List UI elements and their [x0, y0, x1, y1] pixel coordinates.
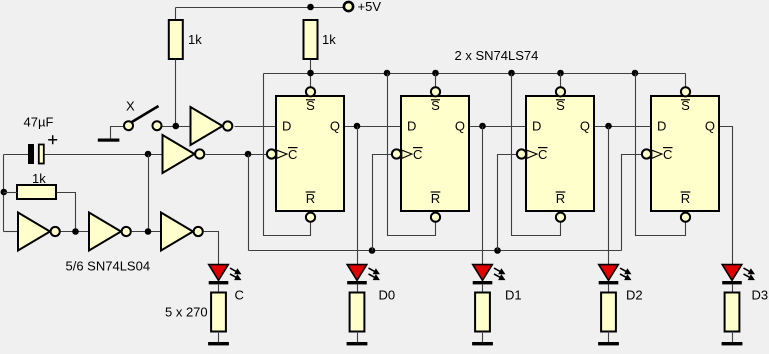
svg-text:C: C — [413, 147, 422, 162]
svg-text:D0: D0 — [379, 288, 396, 303]
node: LED D0 tap on Q of U2a — [354, 123, 361, 130]
ground: bar under LED C branch — [208, 342, 229, 345]
wire: LED D2 column from Q of U3a — [608, 127, 610, 265]
svg-text:1k: 1k — [188, 32, 202, 47]
node: junction R3 / U1a out / U1b in — [72, 228, 79, 235]
node: rail junction R2/S1 — [307, 70, 314, 77]
ground: bar under LED D1 branch — [472, 342, 493, 345]
wire: inverter U1e output to D of U2a — [235, 126, 277, 128]
wire: LED C cathode to resistor — [218, 285, 220, 293]
wire: S-bar drop to U3a — [560, 74, 562, 87]
node: rail junction R-tap U2b — [384, 70, 391, 77]
wire: clock riser to C of U3b (rail end) — [622, 155, 642, 251]
inverter U1c (SN74LS04, clock buffer) — [163, 135, 195, 173]
node: junction left rail / R3 — [1, 189, 8, 196]
ground: bar under LED D2 branch — [598, 342, 619, 345]
wire: R3 left lead — [4, 192, 18, 194]
resistor R2 1k (pull-up for S/R rail) — [304, 20, 318, 59]
wire: R3 right lead down to U1a output node — [57, 193, 76, 232]
node: junction switch/R1/U1e input — [173, 123, 180, 130]
wire: switch to R1/inverter node — [163, 126, 191, 128]
resistor 270 ohm under LED D3 — [725, 293, 740, 332]
svg-text:D: D — [657, 119, 666, 134]
svg-text:D: D — [532, 119, 541, 134]
svg-text:Q: Q — [580, 119, 590, 134]
svg-text:C: C — [538, 147, 547, 162]
wire: clock riser to C of U3a — [498, 155, 517, 251]
D flip-flop U3a (SN74LS74 half) — [517, 87, 594, 222]
resistor 270 ohm under LED C — [211, 293, 226, 332]
ground: bar under LED D0 branch — [347, 342, 368, 345]
resistor 270 ohm under LED D2 — [601, 293, 616, 332]
node: rail junction R-tap U3a — [508, 70, 515, 77]
LED D0 — [347, 265, 379, 285]
wire: resistor to ground (D0) — [357, 332, 359, 343]
switch X right terminal — [153, 121, 162, 130]
inverter U1b (SN74LS04) — [89, 213, 121, 251]
wire: clock drop to bottom clock rail — [248, 155, 250, 251]
label: capacitor plus sign — [48, 135, 57, 144]
svg-text:R: R — [556, 191, 565, 206]
D flip-flop U2a (SN74LS74 half) — [267, 87, 344, 222]
LED C — [209, 265, 241, 285]
wire: LED D1 cathode to resistor — [482, 285, 484, 293]
capacitor C1 47uF negative plate — [28, 144, 34, 164]
LED D3 — [722, 265, 754, 285]
svg-text:C: C — [235, 288, 244, 303]
wire: +5V top rail from R1 to supply terminal — [176, 7, 349, 9]
wire: resistor to ground (D1) — [482, 332, 484, 343]
svg-text:D2: D2 — [626, 288, 643, 303]
svg-text:5/6 SN74LS04: 5/6 SN74LS04 — [66, 259, 151, 274]
svg-text:1k: 1k — [32, 171, 46, 186]
node: rail junction S-drop U2b — [432, 70, 439, 77]
wire: R1 bottom lead down to switch node — [175, 60, 177, 127]
wire: resistor to ground (D3) — [732, 332, 734, 343]
wire: R-bar tap loop for U2b — [388, 74, 436, 236]
node: clock junction at U2a — [245, 151, 252, 158]
wire: S-bar drop to U2b — [435, 74, 437, 87]
wire: switch ground stub — [111, 127, 124, 139]
wire: Q of U3a to D of U3b — [595, 126, 652, 128]
wire: left rail (cap minus / 1k / U1a input) — [3, 155, 5, 232]
node: LED D1 tap on Q of U2b — [479, 123, 486, 130]
svg-text:D1: D1 — [505, 288, 522, 303]
D flip-flop U2b (SN74LS74 half) — [392, 87, 469, 222]
node: clock rail tap for U2b — [369, 247, 376, 254]
switch X left terminal — [124, 121, 133, 130]
svg-text:D: D — [282, 119, 291, 134]
inverter U1e (SN74LS04) — [191, 107, 223, 145]
node: rail junction R-tap U3b — [632, 70, 639, 77]
wire: resistor to ground (C) — [218, 332, 220, 343]
node: junction cap/U1c input/vertical — [145, 151, 152, 158]
terminal: +5V supply — [344, 2, 353, 11]
wire: capacitor right lead to U1b output node — [45, 154, 163, 156]
svg-text:2 x SN74LS74: 2 x SN74LS74 — [455, 48, 539, 63]
wire: LED D1 column from Q of U2b — [482, 127, 484, 265]
wire: Q of U3b to LED D3 column — [720, 127, 733, 265]
svg-text:47µF: 47µF — [24, 115, 54, 130]
svg-text:R: R — [431, 191, 440, 206]
wire: clock riser to C of U2b — [373, 155, 392, 251]
wire: R-bar tap loop for U3a — [512, 74, 561, 236]
wire: S-bar drop to U3b — [685, 74, 687, 87]
svg-text:Q: Q — [705, 119, 715, 134]
svg-text:R: R — [681, 191, 690, 206]
svg-text:1k: 1k — [322, 32, 336, 47]
resistor R1 1k (pull-up at switch) — [169, 20, 183, 59]
wire: R1 top lead — [175, 8, 177, 21]
resistor R3 1k feedback — [17, 185, 56, 199]
ground: bar under LED D3 branch — [722, 342, 743, 345]
wire: vertical from cap node down to U1b output node — [148, 155, 150, 232]
svg-text:5 x 270: 5 x 270 — [165, 305, 208, 320]
wire: R-bar tap loop for U2a — [264, 74, 311, 236]
svg-text:Q: Q — [455, 119, 465, 134]
wire: Q of U2a to D of U2b — [345, 126, 402, 128]
svg-text:R: R — [306, 191, 315, 206]
wire: LED D0 cathode to resistor — [357, 285, 359, 293]
node: junction U1b out / cap vertical — [145, 228, 152, 235]
wire: clock line from oscillator buffer to C of U2a — [206, 154, 267, 156]
resistor 270 ohm under LED D1 — [475, 293, 490, 332]
svg-text:C: C — [663, 147, 672, 162]
wire: LED D0 column from Q of U2a — [357, 127, 359, 265]
wire: U1a input lead — [4, 231, 19, 233]
wire: U1d output to LED C column — [204, 232, 219, 265]
capacitor C1 47uF positive plate — [39, 145, 44, 164]
wire: Q of U2b to D of U3a — [470, 126, 527, 128]
wire: LED D3 cathode to resistor — [732, 285, 734, 293]
ground: switch ground bar — [98, 139, 120, 142]
LED D2 — [599, 265, 631, 285]
wire: capacitor left lead — [4, 154, 29, 156]
node: LED D2 tap on Q of U3a — [605, 123, 612, 130]
svg-text:D3: D3 — [752, 288, 769, 303]
LED D1 — [473, 265, 505, 285]
svg-text:+5V: +5V — [358, 0, 382, 14]
inverter U1a (SN74LS04) — [18, 213, 50, 251]
resistor 270 ohm under LED D0 — [350, 293, 365, 332]
node: rail junction S-drop U3a — [557, 70, 564, 77]
svg-text:X: X — [126, 99, 135, 114]
svg-text:D: D — [407, 119, 416, 134]
wire: U1b output to U1d input — [132, 231, 162, 233]
wire: resistor to ground (D2) — [608, 332, 610, 343]
wire: S/R pull-up rail — [264, 73, 686, 75]
inverter U1d (SN74LS04, LED C driver) — [161, 213, 193, 251]
wire: LED D2 cathode to resistor — [608, 285, 610, 293]
wire: R2 bottom lead down to S/R rail and S bubble of U2a — [310, 60, 312, 87]
svg-text:C: C — [288, 147, 297, 162]
D flip-flop U3b (SN74LS74 half) — [642, 87, 719, 222]
svg-text:Q: Q — [330, 119, 340, 134]
wire: U1a output to U1b input — [61, 231, 90, 233]
wire: R-bar tap loop for U3b — [636, 74, 686, 236]
wire: bottom clock rail — [249, 250, 622, 252]
switch X lever — [131, 106, 159, 123]
node: junction of R2 with +5V rail — [307, 4, 314, 11]
node: clock rail tap for U3a — [494, 247, 501, 254]
